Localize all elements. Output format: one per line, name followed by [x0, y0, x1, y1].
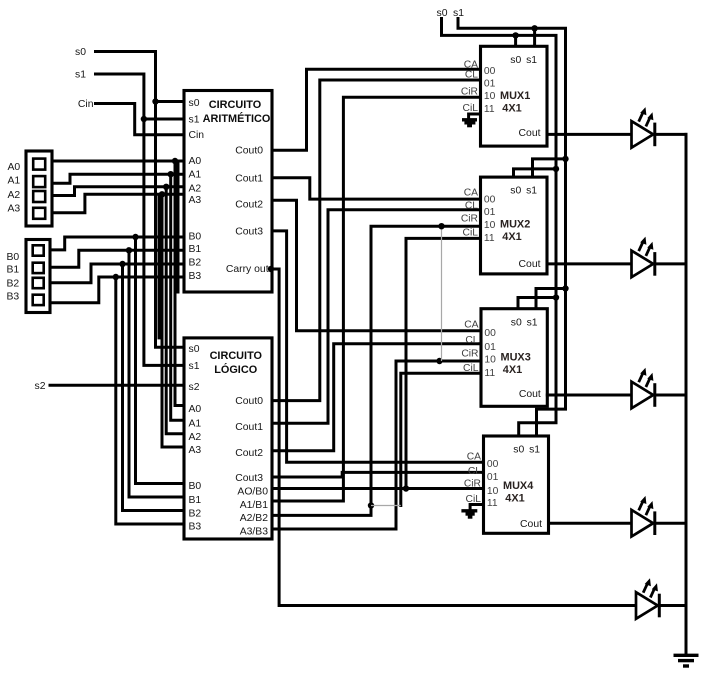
svg-text:Carry out: Carry out	[226, 264, 269, 275]
wire U1 Cout1 to MUX2 CA	[272, 178, 481, 199]
svg-text:MUX3: MUX3	[501, 352, 531, 364]
wire s0 top rail	[442, 19, 557, 437]
junction A2/B2 riser	[368, 502, 374, 508]
ground MUX1	[462, 118, 477, 121]
svg-text:A0: A0	[189, 156, 202, 167]
svg-text:A3: A3	[8, 204, 21, 215]
wire faint link vertical	[441, 226, 443, 361]
svg-text:10: 10	[484, 355, 496, 366]
wire MUX4 CiL stub	[470, 505, 483, 510]
wire MUX1 CiL stub	[469, 114, 481, 119]
svg-text:Cout: Cout	[519, 128, 541, 139]
ground rail bottom	[674, 654, 699, 657]
svg-text:A1: A1	[189, 419, 202, 430]
svg-text:B3: B3	[189, 522, 202, 533]
connector J2 pin square 3	[33, 295, 44, 305]
wire A0 parallel strand	[177, 161, 180, 292]
svg-text:s0: s0	[511, 317, 522, 328]
svg-text:A3/B3: A3/B3	[240, 526, 269, 537]
wire B1	[50, 250, 184, 267]
svg-text:Cout2: Cout2	[235, 199, 263, 210]
svg-text:Cout2: Cout2	[235, 448, 263, 459]
svg-text:Cout: Cout	[520, 519, 542, 530]
svg-text:LÓGICO: LÓGICO	[214, 363, 257, 376]
svg-text:A1: A1	[189, 170, 202, 181]
svg-text:B2: B2	[189, 508, 202, 519]
svg-text:s1: s1	[527, 317, 538, 328]
wire U1 Cout0 to MUX1 CA	[272, 69, 481, 150]
wire U1 Cout2 to MUX3 CA	[272, 200, 481, 330]
junction faint top	[438, 223, 444, 229]
wire MUX3 Cout to LED3	[547, 394, 631, 397]
wire U2 Cout1 to MUX2 CL	[272, 210, 481, 423]
block MUX3 4X1	[481, 309, 547, 407]
wire U1 Cout3 to MUX4 CA	[272, 231, 484, 462]
wire B0	[50, 237, 184, 250]
LED D3	[632, 368, 687, 409]
svg-text:CiR: CiR	[461, 214, 478, 225]
svg-text:B2: B2	[7, 279, 20, 290]
svg-text:11: 11	[487, 498, 498, 509]
svg-text:A3: A3	[189, 445, 202, 456]
junction AO/B0 branch	[403, 485, 409, 491]
svg-text:A2: A2	[8, 190, 21, 201]
svg-text:00: 00	[484, 328, 496, 339]
LED D5	[636, 578, 686, 619]
junction s0 MUX1	[512, 32, 518, 38]
svg-text:01: 01	[487, 472, 499, 483]
svg-text:CiR: CiR	[461, 348, 478, 359]
junction s1 MUX2	[562, 156, 568, 162]
svg-text:CIRCUITO: CIRCUITO	[209, 99, 262, 111]
wire U2 A3/B3 to MUX3 CiR	[272, 361, 481, 529]
svg-text:Cin: Cin	[189, 130, 205, 141]
svg-text:CA: CA	[464, 319, 478, 330]
wire A0	[52, 160, 184, 163]
svg-text:Cout3: Cout3	[235, 226, 263, 237]
svg-text:01: 01	[484, 342, 496, 353]
svg-text:Cin: Cin	[78, 99, 94, 110]
svg-text:Cout1: Cout1	[235, 422, 263, 433]
svg-text:10: 10	[487, 486, 499, 497]
wire s1 from label	[96, 74, 185, 365]
svg-text:MUX2: MUX2	[500, 219, 530, 231]
junction MUX3 CiR	[436, 358, 442, 364]
block MUX2 4X1	[481, 177, 548, 274]
svg-text:10: 10	[484, 91, 496, 102]
wire U2 Cout2 to MUX3 CL	[272, 344, 481, 451]
svg-text:B1: B1	[189, 244, 202, 255]
svg-text:CL: CL	[465, 335, 478, 346]
svg-text:MUX1: MUX1	[500, 90, 530, 102]
wire U2 Cout3 to MUX4 CL	[272, 472, 484, 477]
connector J2 pin square 2	[33, 278, 44, 288]
wire MUX2 Cout to LED2	[547, 262, 632, 265]
junction s1 MUX1	[531, 25, 537, 31]
svg-text:CiL: CiL	[463, 363, 479, 374]
svg-text:s1: s1	[529, 445, 540, 456]
junction s0 to arith	[152, 98, 158, 104]
svg-text:CiR: CiR	[461, 86, 478, 97]
svg-text:CL: CL	[465, 201, 478, 212]
svg-text:ARITMÉTICO: ARITMÉTICO	[203, 112, 271, 125]
svg-text:B0: B0	[7, 252, 20, 263]
wire s0 from label	[96, 52, 185, 348]
svg-text:CA: CA	[464, 188, 478, 199]
wire A3	[52, 194, 184, 212]
wire MUX3 CiL riser	[401, 373, 481, 505]
svg-text:s0: s0	[189, 344, 200, 355]
wire U2 A2/B2 to MUX2 CiR	[272, 226, 481, 515]
svg-text:11: 11	[484, 368, 495, 379]
connector J1 pin square 1	[33, 176, 45, 187]
connector J1 pin square 0	[33, 159, 45, 170]
ground MUX4	[461, 509, 477, 512]
junction s1 to arith	[141, 116, 147, 122]
svg-text:B2: B2	[189, 257, 202, 268]
wire Cin	[96, 104, 185, 135]
svg-text:s1: s1	[75, 70, 86, 81]
connector J2 pin square 0	[33, 245, 44, 255]
wire B2	[50, 264, 184, 283]
svg-text:s2: s2	[35, 381, 46, 392]
wire s2	[50, 384, 184, 387]
svg-text:Cout: Cout	[519, 389, 541, 400]
connector J1 pin square 3	[33, 208, 45, 219]
svg-text:CL: CL	[465, 69, 478, 80]
svg-text:A0: A0	[189, 404, 202, 415]
connector J1 outer	[26, 151, 52, 226]
svg-text:B1: B1	[189, 495, 202, 506]
svg-text:A1/B1: A1/B1	[240, 500, 269, 511]
svg-text:A2: A2	[189, 184, 202, 195]
svg-text:4X1: 4X1	[503, 364, 522, 376]
svg-text:00: 00	[484, 195, 496, 206]
svg-text:s2: s2	[189, 382, 200, 393]
svg-text:s0: s0	[510, 55, 521, 66]
wire faint link horizontal	[371, 505, 401, 507]
wire U2 A1/B1 to MUX1 CiR	[272, 97, 481, 501]
svg-text:01: 01	[484, 78, 496, 89]
block MUX1 4X1	[481, 46, 548, 146]
svg-text:A3: A3	[189, 195, 202, 206]
connector J1 pin square 2	[33, 191, 45, 202]
wire U1 Carry out to LED5	[268, 266, 274, 272]
svg-text:Cout0: Cout0	[235, 396, 263, 407]
svg-text:CiR: CiR	[464, 478, 481, 489]
svg-text:00: 00	[484, 66, 496, 77]
svg-text:s1: s1	[189, 361, 200, 372]
block U1 CIRCUITO ARITMETICO	[184, 91, 272, 293]
wire MUX4 Cout to LED4	[549, 522, 632, 525]
svg-text:Cout: Cout	[519, 259, 541, 270]
connector J2 outer	[26, 240, 50, 313]
svg-text:B0: B0	[189, 232, 202, 243]
wire MUX1 Cout to LED1	[547, 133, 632, 136]
wire U2 AO/B0 to MUX4 CiR	[272, 487, 484, 490]
junction s1 MUX3	[562, 285, 568, 291]
svg-text:A2: A2	[189, 432, 202, 443]
wire LED cathode rail	[685, 134, 688, 655]
svg-text:Cout1: Cout1	[235, 173, 263, 184]
svg-text:CA: CA	[467, 452, 481, 463]
svg-text:Cout3: Cout3	[235, 473, 263, 484]
svg-text:11: 11	[484, 104, 495, 115]
wire U2 Cout0 to MUX1 CL	[272, 80, 481, 401]
svg-text:4X1: 4X1	[505, 493, 524, 505]
svg-text:10: 10	[484, 220, 496, 231]
svg-text:B1: B1	[7, 265, 20, 276]
block U2 CIRCUITO LOGICO	[184, 338, 272, 539]
svg-text:4X1: 4X1	[502, 102, 521, 114]
wire A1	[52, 174, 184, 183]
svg-text:CiL: CiL	[463, 228, 479, 239]
svg-text:s0: s0	[75, 47, 86, 58]
block MUX4 4X1	[484, 436, 549, 533]
svg-text:s1: s1	[189, 115, 200, 126]
svg-text:AO/B0: AO/B0	[237, 487, 268, 498]
svg-text:B3: B3	[189, 271, 202, 282]
svg-text:MUX4: MUX4	[503, 480, 533, 492]
svg-text:CL: CL	[468, 466, 481, 477]
wire s1 top rail	[458, 19, 566, 437]
LED D4	[632, 496, 687, 537]
svg-text:A1: A1	[8, 176, 21, 187]
svg-text:A0: A0	[8, 162, 21, 173]
wire B3	[50, 277, 184, 303]
LED D1	[632, 107, 687, 148]
wire A3 parallel strand	[158, 196, 161, 338]
svg-text:B0: B0	[189, 481, 202, 492]
wire A2	[52, 187, 184, 196]
svg-text:11: 11	[484, 233, 495, 244]
svg-text:4X1: 4X1	[502, 231, 521, 243]
junction s0 MUX2	[553, 166, 559, 172]
svg-text:Cout0: Cout0	[235, 145, 263, 156]
svg-text:s1: s1	[526, 186, 537, 197]
svg-text:00: 00	[487, 459, 499, 470]
svg-text:A2/B2: A2/B2	[240, 513, 269, 524]
LED D2	[632, 237, 687, 278]
svg-text:s0: s0	[189, 98, 200, 109]
svg-text:s1: s1	[526, 55, 537, 66]
svg-text:B3: B3	[7, 292, 20, 303]
svg-text:01: 01	[484, 207, 496, 218]
svg-text:s0: s0	[513, 445, 524, 456]
svg-text:CIRCUITO: CIRCUITO	[210, 350, 263, 362]
junction s0 MUX3	[553, 294, 559, 300]
svg-text:CiL: CiL	[463, 103, 479, 114]
svg-text:s0: s0	[510, 186, 521, 197]
connector J2 pin square 1	[33, 263, 44, 273]
